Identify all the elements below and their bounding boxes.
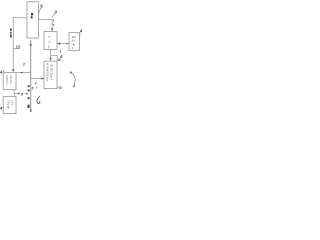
svg-text:5 ym 2 u.: 5 ym 2 u. <box>5 75 8 85</box>
tiny vertical text near W1 <box>10 28 12 37</box>
connector A-B and to bus <box>14 90 19 94</box>
svg-text:IE. BC 2 um s: IE. BC 2 um s <box>50 65 53 81</box>
wire W2 right from B1 <box>39 20 53 29</box>
label 20 <box>52 10 57 18</box>
wire block A to bus <box>16 72 31 74</box>
svg-text:x 2 s.: x 2 s. <box>10 100 12 106</box>
arrowhead at B3 side <box>66 43 69 45</box>
svg-text:114: 114 <box>72 36 77 39</box>
block A (Rx) <box>3 73 16 90</box>
svg-text:4: 4 <box>72 85 75 89</box>
bus side marks <box>27 85 29 108</box>
arrowhead into block B4 <box>49 58 52 61</box>
arrowhead into block B2 <box>51 28 54 31</box>
arrowhead at B2 side <box>57 42 60 45</box>
block B1 (antenna switch) <box>27 2 39 38</box>
arrowhead mid <box>18 93 21 95</box>
arrowhead into B4 <box>41 77 44 79</box>
connector B2-B3 <box>57 43 69 45</box>
wire bus to B4 <box>31 78 42 80</box>
continuation to bus with arrowhead <box>25 93 27 95</box>
svg-text:2.: 2. <box>48 45 51 49</box>
label 10 <box>0 70 4 75</box>
label 24 at B3 top right <box>79 28 83 36</box>
svg-text:2 X.Y ru: 2 X.Y ru <box>9 75 12 84</box>
swoosh numeral 6 <box>37 96 40 103</box>
wire W1 left from B1 <box>13 18 27 70</box>
block B4 (Rx A/D filter) <box>44 61 57 88</box>
label 12 <box>14 44 21 49</box>
label 14 <box>0 106 3 111</box>
bus line (vertical) <box>30 40 32 112</box>
block C (Tx) <box>3 97 16 114</box>
block B2 (receiver front) <box>44 32 57 50</box>
branch wire to right <box>51 56 58 58</box>
label 34 <box>59 50 63 59</box>
svg-text:6: 6 <box>32 86 34 90</box>
stub to block C top <box>14 94 16 97</box>
block B3 (right) <box>69 33 80 51</box>
svg-text:.4u: .4u <box>72 43 76 46</box>
label 36 <box>57 85 62 90</box>
svg-text:7 3 w 2u: 7 3 w 2u <box>7 99 10 109</box>
label 16 <box>39 4 43 13</box>
svg-text:B. P AV FIL 2u s: B. P AV FIL 2u s <box>46 63 49 82</box>
svg-text:6: 6 <box>40 4 43 9</box>
curved arrow right <box>70 72 76 89</box>
wire W3 below B2 <box>50 50 52 59</box>
arrowhead up into B1 <box>30 43 32 46</box>
svg-text:2: 2 <box>22 63 25 67</box>
arrowhead into block A <box>12 69 15 72</box>
tick on wire <box>21 72 23 74</box>
